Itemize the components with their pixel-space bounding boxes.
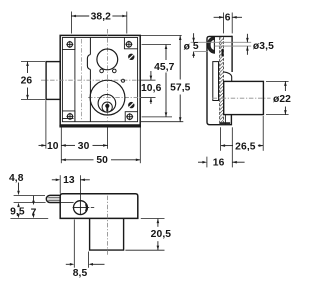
spindle hole lines (ø5 / ø3,5 upper) [191,41,252,43]
cylinder face [98,95,116,113]
dim 57,5 [170,36,191,122]
dim 10,6 extension lines [141,80,156,97]
dim 20,5 extension lines [125,219,164,251]
screw bottom-left [67,113,74,120]
cylinder horizontal centerline [88,97,141,99]
dim 16 extension lines [207,127,232,167]
cylinder axis centerline (side) [213,97,271,99]
follower circle (bottom view) [73,200,95,215]
screw notch bottom-right [125,112,137,122]
bolt/handle horizontal centerline [41,79,141,81]
ø5 hole lower line [194,50,208,52]
svg-text:ø3,5: ø3,5 [253,41,274,52]
cylinder neck fillet [224,72,232,82]
screw notch top-left [62,38,75,50]
dim 6 [214,13,242,24]
bolt guide line inside case [61,201,74,203]
svg-text:10,6: 10,6 [141,83,162,94]
dim ø3,5 [246,34,274,55]
svg-text:26,5: 26,5 [235,141,256,152]
svg-text:13: 13 [63,175,75,186]
dim 30 [61,141,107,152]
case bottom edge extension line (left) [10,217,48,219]
dim 50 [61,155,140,166]
screw top-left [66,41,73,48]
svg-text:ø22: ø22 [273,94,291,105]
svg-text:57,5: 57,5 [170,82,191,93]
cylinder body (side view) [224,81,264,114]
dim 10,6 [141,71,162,104]
svg-text:38,2: 38,2 [91,11,112,22]
dim 7 [31,196,37,219]
svg-text:7: 7 [31,208,37,219]
bottom dark section of plate [220,122,231,125]
svg-text:9,5: 9,5 [10,206,25,217]
follower hole (big circle) [97,49,118,70]
svg-text:16: 16 [213,158,225,169]
cylinder plug [102,102,112,112]
dim 45,7 [154,45,175,117]
svg-text:4,8: 4,8 [9,173,24,184]
screw top-right [125,41,132,48]
bolt top edge extension line (left) [14,194,45,196]
dim 26 [21,62,33,100]
inner plate line with tab bump [87,38,90,122]
dim 20,5 [151,219,172,251]
dim 13 [52,175,90,186]
bolt tab (bottom view) [46,195,60,202]
dim 8,5 [66,263,105,279]
dim 57,5 extension lines [141,36,184,122]
dim 4,8 [9,173,24,207]
dim 6 extension lines [224,13,233,34]
ø3,5 hole lower line [215,45,252,47]
dim 10 [39,141,59,152]
plate front face upper edge [231,36,233,72]
dim 26,5 extension lines [221,116,264,151]
svg-text:30: 30 [78,141,90,152]
slotted screw lower-right [128,102,134,108]
follower axis centerline (vertical grey) [81,39,83,120]
cylinder axis centerline (vertical) [106,29,108,121]
dim 26 extension lines [21,62,45,100]
bolt (front view) [46,62,60,100]
plate edge below cylinder [224,115,226,125]
plate section hatch strip [220,37,224,124]
small hole left under follower [100,69,104,73]
cylinder housing (bottom view) [90,218,124,250]
svg-text:45,7: 45,7 [154,62,175,73]
lock case bottom view [60,194,138,219]
slot in plate [213,62,219,101]
dim 9,5 [10,206,25,218]
svg-text:8,5: 8,5 [73,268,88,279]
dim 38,2 extension lines [71,12,126,34]
cylinder ring [90,80,125,115]
svg-text:6: 6 [225,13,231,24]
svg-text:5: 5 [193,41,199,52]
cylinder axis centerline (bottom view) [106,196,108,257]
keyhole [105,104,109,111]
svg-text:ø: ø [184,41,191,52]
dim ø5 [184,33,199,58]
svg-text:26: 26 [21,76,33,87]
faceplate fold line [74,38,76,122]
lock case outer edge [59,35,141,126]
slotted screw upper-right [128,54,134,60]
screw notch top-right [124,38,137,49]
dim 26,5 [221,141,264,152]
tiny hole right of cylinder [122,79,125,82]
lock case inner edge [62,38,137,122]
dim 8,5 extension lines [74,220,88,268]
dim 38,2 [71,11,126,22]
dim 13 extension lines [60,175,80,200]
mounting plate outline [207,36,232,124]
knob section (hatched rim) [207,37,214,54]
dim 45,7 extension lines [142,45,172,117]
screw notch bottom-left [62,111,75,122]
small hole right under follower [113,69,117,73]
dim ø22 extension lines [266,81,289,114]
follower bar section (black) [222,49,224,56]
svg-text:10: 10 [47,141,59,152]
bolt bottom edge extension line (left) [14,202,46,204]
screw bottom-right [126,113,133,120]
svg-text:50: 50 [96,155,108,166]
dim 10/30/50 extension lines [46,100,140,163]
dim 16 [198,158,245,169]
svg-text:20,5: 20,5 [151,229,172,240]
dim ø22 [273,81,291,114]
